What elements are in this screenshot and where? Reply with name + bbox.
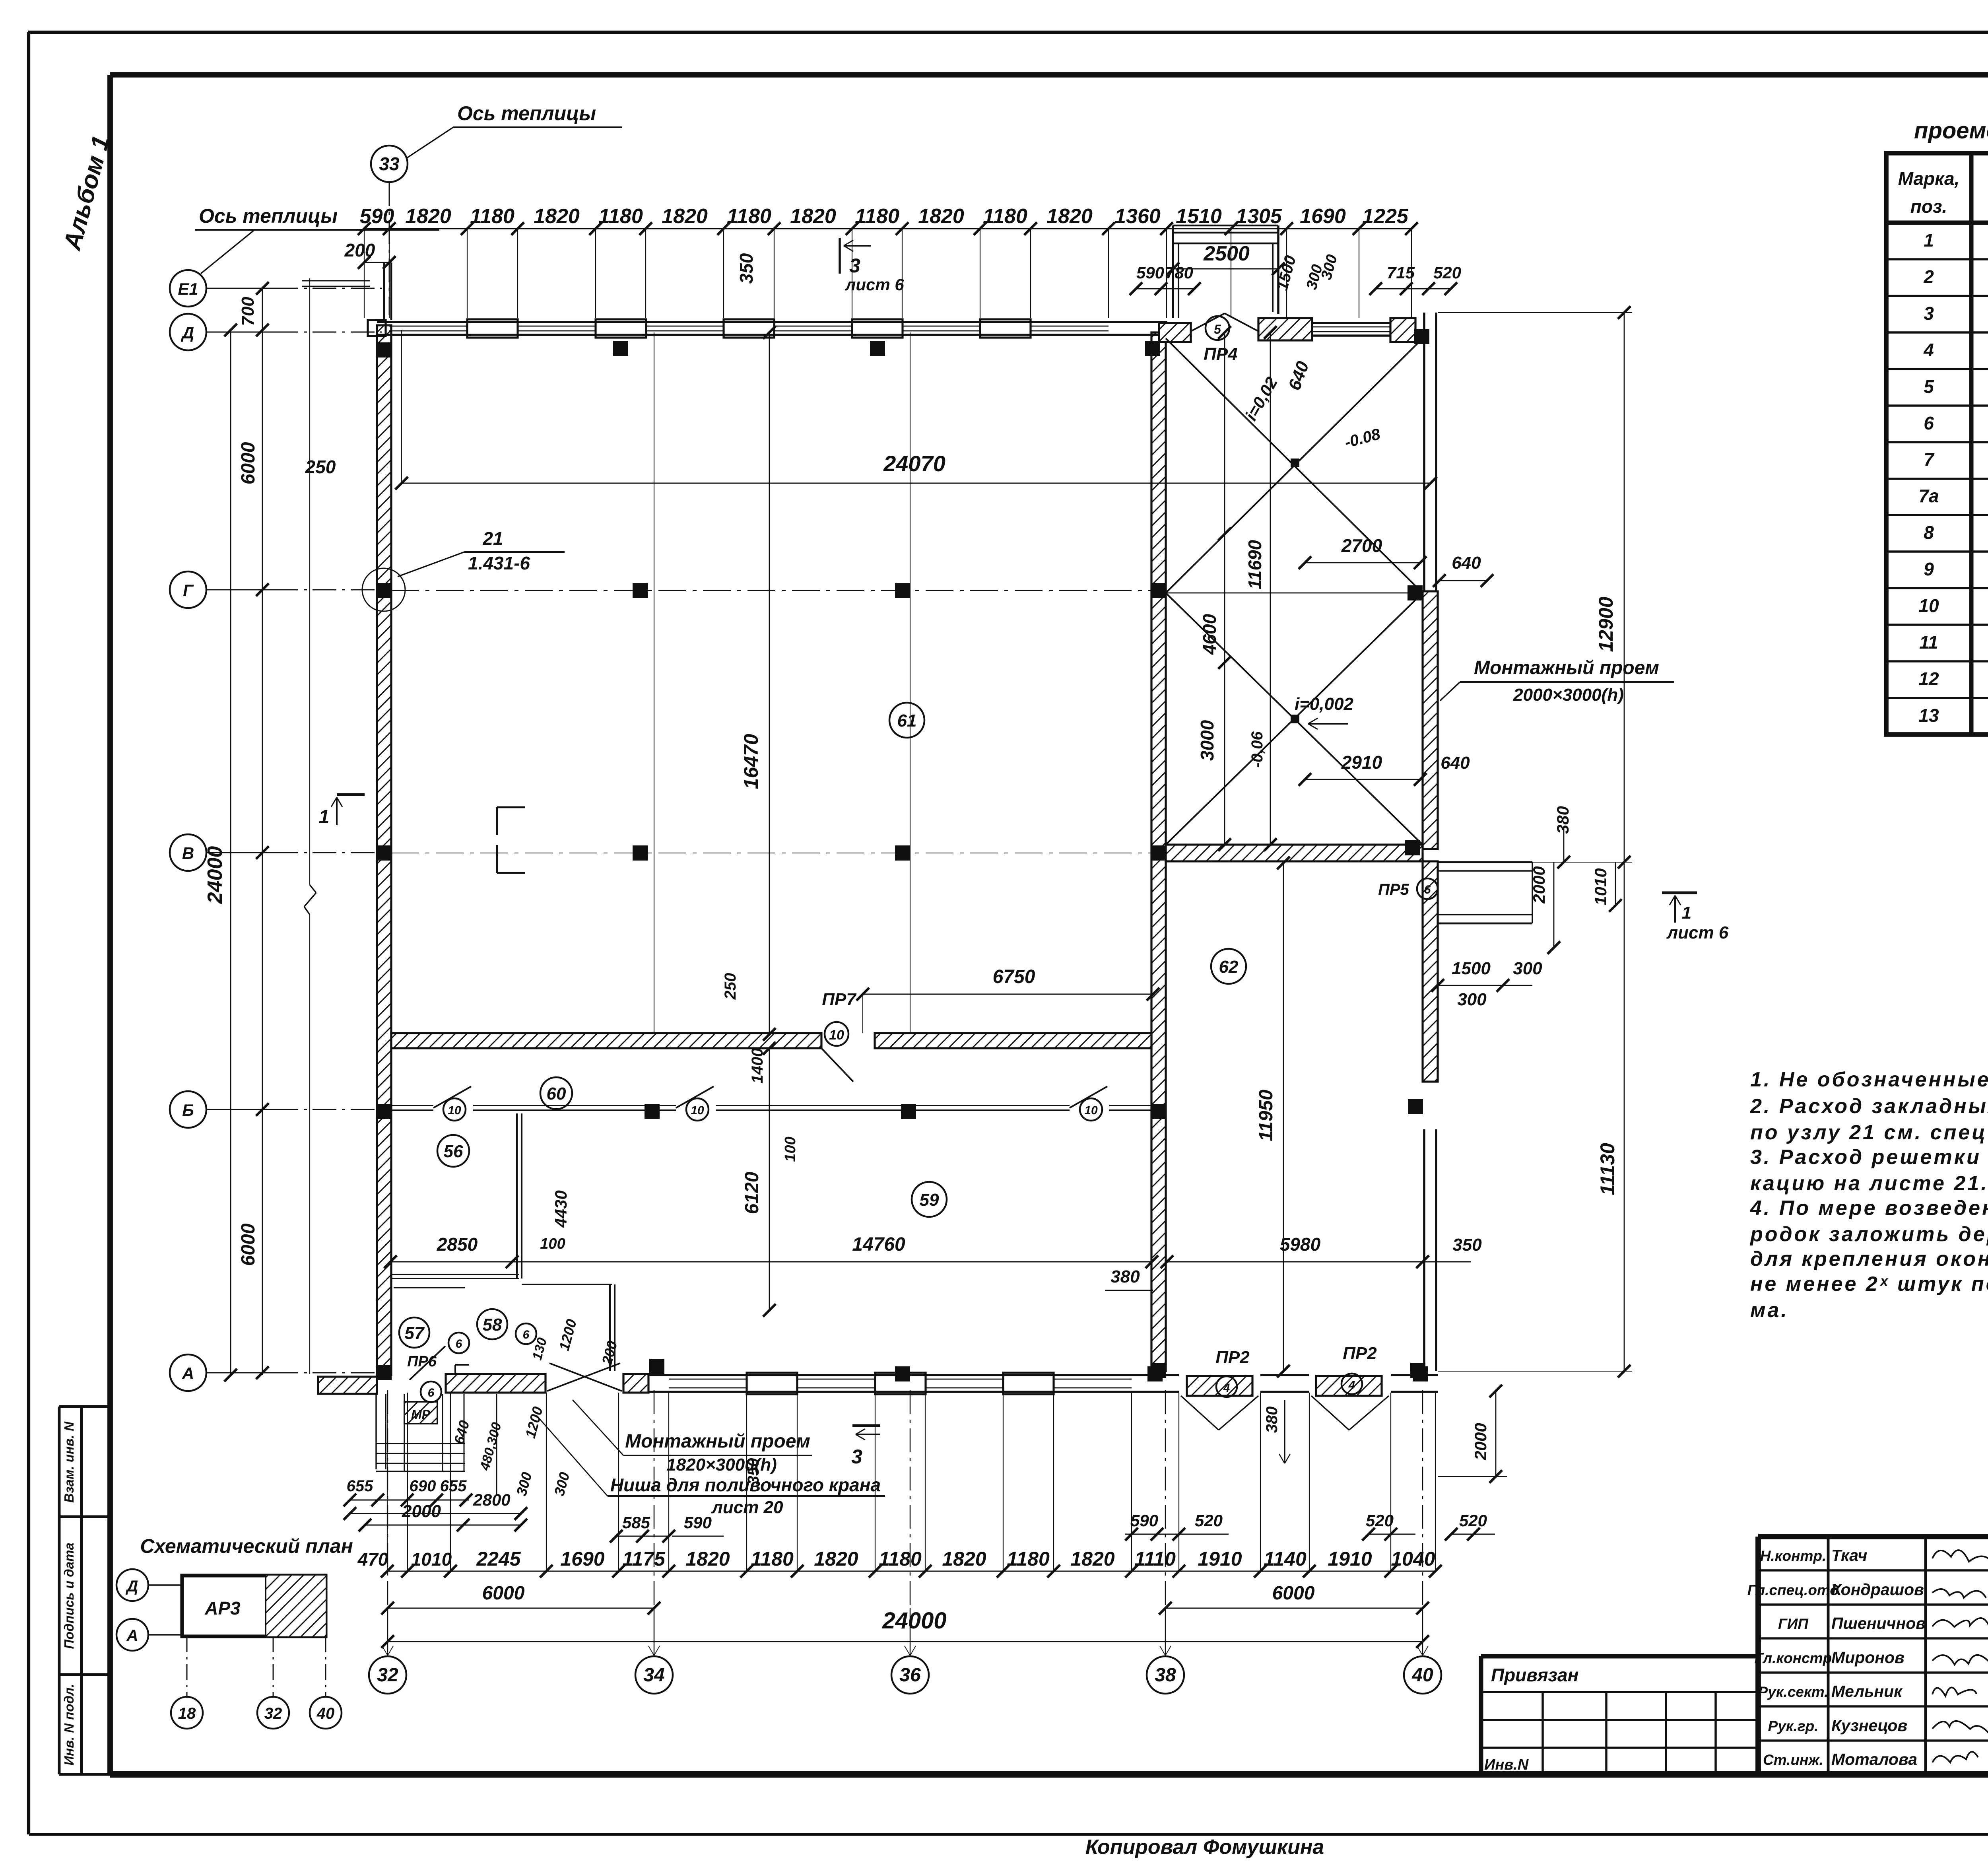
svg-text:Рук.сект.: Рук.сект.: [1758, 1684, 1829, 1700]
svg-text:Г: Г: [183, 581, 194, 600]
svg-text:2850: 2850: [437, 1234, 478, 1255]
svg-text:не менее 2ˣ штук по высоте: не менее 2ˣ штук по высоте с каждой стор…: [1750, 1273, 1988, 1296]
svg-text:ПР2: ПР2: [1215, 1348, 1250, 1367]
svg-text:2245: 2245: [476, 1548, 521, 1570]
svg-text:5980: 5980: [1280, 1234, 1321, 1255]
svg-text:Гл.спец.отд: Гл.спец.отд: [1747, 1582, 1839, 1598]
svg-text:6000: 6000: [238, 1223, 259, 1266]
svg-text:1820: 1820: [662, 205, 708, 228]
svg-text:1910: 1910: [1198, 1548, 1242, 1570]
svg-text:4. По мере возведения кирпич: 4. По мере возведения кирпичной кладки с…: [1750, 1197, 1988, 1220]
svg-text:ПР7: ПР7: [822, 990, 857, 1009]
svg-text:32: 32: [264, 1705, 282, 1722]
svg-text:2000: 2000: [1471, 1423, 1490, 1460]
svg-text:АР3: АР3: [204, 1598, 241, 1618]
svg-text:Взам. инв. N: Взам. инв. N: [62, 1421, 76, 1503]
svg-text:5: 5: [1924, 376, 1934, 397]
svg-text:12: 12: [1918, 668, 1939, 689]
svg-text:Ниша для поливочного крана: Ниша для поливочного крана: [610, 1475, 881, 1495]
svg-text:585: 585: [622, 1513, 650, 1532]
svg-text:780: 780: [1165, 263, 1193, 282]
svg-text:24000: 24000: [204, 846, 227, 904]
svg-text:поз.: поз.: [1910, 196, 1947, 217]
svg-text:i=0,002: i=0,002: [1295, 694, 1354, 714]
svg-text:Марка,: Марка,: [1898, 168, 1960, 189]
svg-text:1820: 1820: [534, 205, 580, 228]
svg-text:11690: 11690: [1244, 540, 1265, 589]
svg-text:1. Не обозначенные на плане т: 1. Не обозначенные на плане трапы d=100: [1750, 1068, 1988, 1091]
svg-text:1180: 1180: [983, 205, 1027, 228]
svg-text:6: 6: [1924, 413, 1934, 433]
svg-text:проемов ворот и дверей: проемов ворот и дверей: [1914, 118, 1988, 144]
svg-text:1225: 1225: [1362, 205, 1409, 228]
svg-text:2. Расход закладных изделий: 2. Расход закладных изделий МС-10, МС-12…: [1750, 1095, 1988, 1118]
svg-text:лист 20: лист 20: [711, 1498, 783, 1517]
svg-text:1820: 1820: [814, 1548, 858, 1570]
svg-text:Е1: Е1: [178, 280, 198, 298]
svg-text:14760: 14760: [852, 1234, 905, 1255]
svg-text:350: 350: [736, 253, 757, 284]
svg-text:1820: 1820: [1070, 1548, 1114, 1570]
svg-text:кацию на листе 21.: кацию на листе 21.: [1750, 1172, 1988, 1195]
svg-text:Ткач: Ткач: [1831, 1546, 1868, 1564]
svg-text:655: 655: [347, 1477, 373, 1495]
svg-text:520: 520: [1433, 263, 1461, 282]
svg-text:6: 6: [523, 1328, 530, 1341]
svg-text:3000: 3000: [1197, 720, 1217, 761]
svg-text:А: А: [126, 1627, 138, 1644]
svg-text:13: 13: [1918, 705, 1939, 726]
svg-text:Инв.N: Инв.N: [1484, 1756, 1529, 1773]
svg-text:6120: 6120: [742, 1172, 763, 1214]
svg-text:10: 10: [448, 1104, 461, 1117]
svg-text:62: 62: [1219, 957, 1239, 977]
svg-text:2000: 2000: [1530, 866, 1548, 903]
svg-text:Миронов: Миронов: [1831, 1648, 1905, 1667]
svg-text:1500: 1500: [1452, 959, 1491, 978]
svg-text:640: 640: [1452, 553, 1481, 573]
svg-text:1180: 1180: [751, 1548, 794, 1570]
svg-text:1010: 1010: [1591, 868, 1610, 905]
svg-text:6: 6: [428, 1386, 435, 1399]
svg-text:Инв. N подл.: Инв. N подл.: [62, 1684, 76, 1765]
svg-text:40: 40: [316, 1705, 335, 1722]
svg-text:10: 10: [1918, 595, 1939, 616]
svg-text:ПР6: ПР6: [407, 1353, 437, 1370]
svg-text:350: 350: [1452, 1235, 1482, 1255]
svg-text:Ось теплицы: Ось теплицы: [457, 102, 596, 124]
svg-text:8: 8: [1924, 522, 1934, 543]
svg-text:34: 34: [643, 1665, 664, 1686]
svg-text:590: 590: [684, 1513, 712, 1532]
svg-text:7: 7: [1924, 449, 1935, 470]
svg-text:1910: 1910: [1328, 1548, 1372, 1570]
svg-text:-0,06: -0,06: [1248, 731, 1266, 768]
svg-text:1140: 1140: [1264, 1548, 1307, 1570]
svg-text:Кузнецов: Кузнецов: [1831, 1716, 1907, 1735]
svg-text:1180: 1180: [879, 1548, 922, 1570]
svg-text:520: 520: [1459, 1511, 1487, 1530]
svg-text:5: 5: [1214, 322, 1221, 336]
svg-text:Б: Б: [182, 1101, 194, 1119]
svg-text:ПР5: ПР5: [1378, 881, 1409, 898]
svg-text:250: 250: [305, 457, 336, 477]
svg-text:4600: 4600: [1199, 614, 1220, 655]
svg-text:715: 715: [1387, 263, 1415, 282]
svg-text:2: 2: [1923, 266, 1934, 287]
svg-text:57: 57: [405, 1323, 425, 1343]
svg-text:лист 6: лист 6: [845, 275, 904, 294]
svg-text:4: 4: [1348, 1379, 1355, 1392]
svg-text:1180: 1180: [470, 205, 514, 228]
svg-text:58: 58: [483, 1315, 502, 1335]
svg-text:61: 61: [897, 711, 917, 731]
svg-text:Н.контр.: Н.контр.: [1760, 1548, 1826, 1564]
svg-text:2000: 2000: [402, 1502, 441, 1521]
svg-text:4: 4: [1923, 340, 1934, 360]
svg-text:1: 1: [319, 806, 330, 828]
svg-text:59: 59: [920, 1190, 939, 1210]
svg-text:24000: 24000: [882, 1608, 946, 1634]
svg-text:1820: 1820: [790, 205, 836, 228]
svg-text:3: 3: [1924, 303, 1934, 324]
svg-text:6: 6: [456, 1337, 462, 1350]
svg-text:1180: 1180: [598, 205, 643, 228]
svg-text:1820: 1820: [1046, 205, 1093, 228]
svg-text:по узлу 21 см. спецификацию н: по узлу 21 см. спецификацию на листе 21.: [1750, 1121, 1988, 1144]
svg-text:1110: 1110: [1134, 1548, 1176, 1570]
svg-text:1820: 1820: [942, 1548, 986, 1570]
svg-text:Ст.инж.: Ст.инж.: [1763, 1752, 1823, 1768]
svg-text:655: 655: [440, 1477, 467, 1495]
svg-text:родок заложить деревянные а: родок заложить деревянные антисептирован…: [1749, 1223, 1988, 1246]
svg-text:33: 33: [379, 153, 400, 174]
svg-text:7а: 7а: [1918, 486, 1939, 506]
svg-text:Копировал Фомушкина: Копировал Фомушкина: [1085, 1836, 1324, 1859]
svg-text:380: 380: [1263, 1407, 1281, 1433]
svg-text:11: 11: [1919, 632, 1938, 653]
svg-text:для крепления оконных и дв: для крепления оконных и дверных блоков в…: [1750, 1247, 1988, 1271]
svg-text:4430: 4430: [551, 1190, 570, 1228]
svg-text:590: 590: [360, 205, 394, 228]
svg-text:56: 56: [444, 1142, 463, 1161]
svg-text:300: 300: [1457, 990, 1487, 1009]
svg-text:21: 21: [482, 528, 503, 549]
svg-text:1.431-6: 1.431-6: [468, 553, 530, 573]
svg-text:4: 4: [1223, 1381, 1230, 1395]
svg-text:2700: 2700: [1341, 535, 1382, 556]
svg-text:Гл.констр: Гл.констр: [1755, 1650, 1832, 1666]
svg-text:Схематический план: Схематический план: [140, 1535, 353, 1557]
svg-text:9: 9: [1924, 559, 1934, 579]
svg-text:380: 380: [1110, 1267, 1140, 1286]
svg-text:Кондрашов: Кондрашов: [1831, 1580, 1924, 1599]
svg-text:10: 10: [1084, 1104, 1098, 1117]
svg-text:МР: МР: [411, 1407, 431, 1422]
svg-text:32: 32: [377, 1665, 398, 1686]
svg-text:16470: 16470: [740, 734, 762, 789]
svg-text:1040: 1040: [1391, 1548, 1435, 1570]
svg-text:2910: 2910: [1341, 752, 1382, 773]
svg-text:Ось теплицы: Ось теплицы: [199, 205, 338, 227]
svg-text:1180: 1180: [727, 205, 771, 228]
svg-text:В: В: [182, 844, 194, 863]
svg-text:ПР4: ПР4: [1204, 344, 1237, 364]
svg-text:1: 1: [1924, 230, 1934, 251]
svg-text:11950: 11950: [1256, 1090, 1277, 1141]
svg-text:2000×3000(h): 2000×3000(h): [1513, 685, 1624, 705]
svg-text:Д: Д: [126, 1578, 138, 1595]
svg-text:11130: 11130: [1596, 1143, 1619, 1195]
svg-text:100: 100: [540, 1236, 565, 1252]
svg-text:250: 250: [722, 973, 739, 1000]
svg-text:1690: 1690: [560, 1548, 604, 1570]
svg-text:6750: 6750: [993, 966, 1035, 987]
svg-text:1180: 1180: [1007, 1548, 1050, 1570]
svg-text:690: 690: [410, 1477, 436, 1495]
svg-text:Монтажный проем: Монтажный проем: [625, 1431, 810, 1452]
svg-text:6000: 6000: [1272, 1583, 1315, 1604]
svg-text:3: 3: [849, 255, 860, 277]
svg-text:40: 40: [1411, 1665, 1433, 1686]
svg-text:3. Расход решетки для вытиран: 3. Расход решетки для вытирания ног МР с…: [1750, 1146, 1988, 1169]
svg-text:520: 520: [1366, 1511, 1394, 1530]
svg-text:1360: 1360: [1114, 205, 1161, 228]
svg-text:18: 18: [178, 1705, 196, 1722]
svg-text:Д: Д: [181, 323, 194, 342]
svg-text:6000: 6000: [238, 442, 259, 484]
svg-text:1820: 1820: [918, 205, 964, 228]
svg-text:100: 100: [782, 1137, 799, 1162]
svg-text:10: 10: [829, 1028, 844, 1043]
svg-text:Мельник: Мельник: [1831, 1682, 1903, 1700]
svg-text:380: 380: [1553, 806, 1572, 834]
svg-text:Пшеничнов: Пшеничнов: [1831, 1614, 1926, 1632]
svg-text:Монтажный проем: Монтажный проем: [1474, 657, 1659, 678]
svg-text:2800: 2800: [473, 1490, 510, 1509]
svg-text:1820: 1820: [685, 1548, 730, 1570]
svg-text:лист 6: лист 6: [1666, 923, 1729, 942]
svg-text:12900: 12900: [1595, 596, 1617, 652]
svg-text:520: 520: [1195, 1511, 1223, 1530]
svg-text:590: 590: [1130, 1511, 1158, 1530]
svg-text:6: 6: [1424, 883, 1431, 896]
svg-text:10: 10: [691, 1104, 704, 1117]
svg-text:36: 36: [899, 1665, 921, 1686]
svg-text:200: 200: [344, 240, 375, 260]
svg-text:700: 700: [238, 297, 258, 326]
svg-text:590: 590: [1136, 263, 1164, 282]
svg-text:1010: 1010: [411, 1549, 452, 1570]
svg-text:1175: 1175: [622, 1548, 666, 1570]
svg-text:1690: 1690: [1300, 205, 1346, 228]
svg-text:Рук.гр.: Рук.гр.: [1768, 1718, 1819, 1734]
svg-text:Моталова: Моталова: [1831, 1750, 1917, 1768]
svg-text:1510: 1510: [1176, 205, 1222, 228]
svg-text:38: 38: [1155, 1665, 1176, 1686]
svg-text:1400: 1400: [749, 1048, 766, 1084]
svg-text:300: 300: [1513, 959, 1542, 978]
svg-text:2500: 2500: [1203, 242, 1250, 265]
svg-text:1820×3000(h): 1820×3000(h): [666, 1455, 777, 1475]
svg-text:ПР2: ПР2: [1343, 1344, 1377, 1363]
svg-text:ма.: ма.: [1750, 1299, 1789, 1322]
svg-text:1305: 1305: [1236, 205, 1282, 228]
svg-text:6000: 6000: [482, 1583, 525, 1604]
svg-text:470: 470: [357, 1549, 388, 1570]
svg-text:60: 60: [547, 1084, 566, 1104]
svg-text:3: 3: [851, 1446, 862, 1468]
svg-text:1180: 1180: [855, 205, 899, 228]
svg-text:1820: 1820: [405, 205, 451, 228]
svg-text:1: 1: [1682, 903, 1691, 923]
svg-text:Привязан: Привязан: [1491, 1665, 1578, 1685]
svg-text:640: 640: [1441, 753, 1470, 773]
svg-text:А: А: [182, 1364, 194, 1383]
svg-text:Подпись и дата: Подпись и дата: [62, 1543, 76, 1649]
svg-text:24070: 24070: [883, 451, 945, 476]
svg-text:ГИП: ГИП: [1778, 1616, 1809, 1632]
